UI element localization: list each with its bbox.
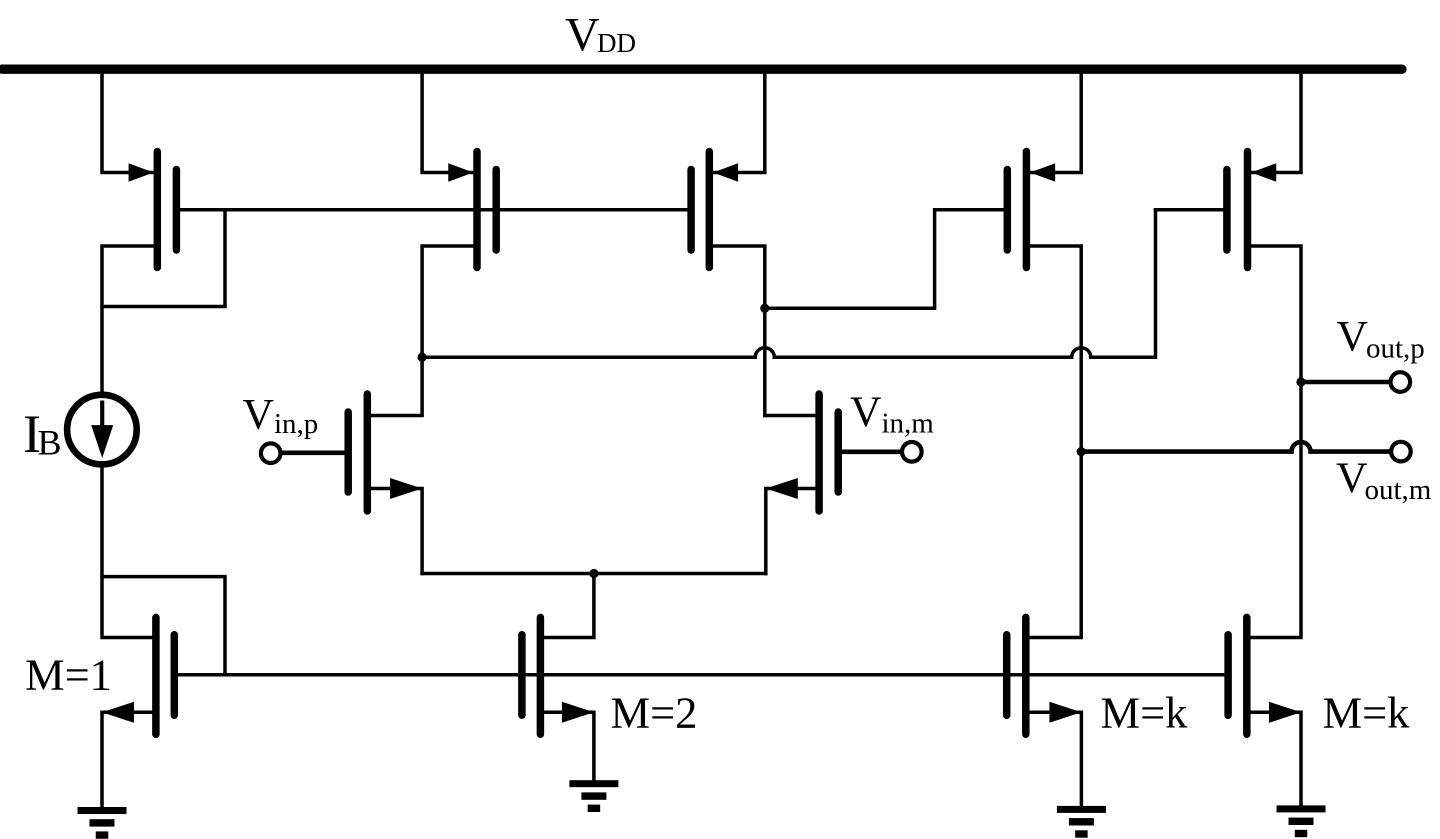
wire node A bus to P5 gate (with hops) <box>422 210 1155 357</box>
wire IB to M1 drain <box>102 467 156 637</box>
wire Mk1 source to ground <box>1026 712 1082 806</box>
svg-text:B: B <box>38 423 62 463</box>
wire P5 drain down to Mk2 drain (Voutp node) <box>1247 246 1301 638</box>
node Voutm junction dot <box>1077 447 1086 456</box>
wire Voutp node to terminal <box>1301 380 1391 385</box>
transistor Minm (NMOS input -) <box>766 394 838 511</box>
label Voutm <box>1336 454 1432 506</box>
svg-text:in,p: in,p <box>274 408 318 440</box>
terminal Voutp <box>1391 372 1411 392</box>
transistor Mk2 (NMOS, M=k right) <box>1228 617 1301 734</box>
node Voutp junction dot <box>1296 377 1305 386</box>
wire P1 gate bus to P2,P3 gates <box>176 208 691 212</box>
svg-text:V: V <box>1337 313 1368 361</box>
terminal Vinm <box>902 442 922 462</box>
transistor P4 (PMOS output left) <box>1007 152 1055 268</box>
svg-text:DD: DD <box>597 28 636 58</box>
transistor P1 (PMOS, diode-connected) <box>129 152 177 268</box>
transistor P3 (PMOS) <box>691 152 738 268</box>
wire bottom NMOS gate bus <box>174 673 1228 677</box>
terminal Voutm <box>1391 442 1411 462</box>
wire VDD to P2 source <box>422 74 473 173</box>
wire VDD to P4 source <box>1031 74 1082 173</box>
transistor P5 (PMOS output right) <box>1227 152 1276 268</box>
ground under Mk2 <box>1277 805 1326 837</box>
wire P4 drain down to Mk1 drain (Voutm node) <box>1026 246 1081 638</box>
wire Minm gate to Vinm terminal <box>838 449 902 454</box>
label VDD <box>565 9 636 62</box>
wire Minm drain lead <box>765 414 819 418</box>
node B junction dot (P3 drain / P4 gate) <box>760 304 769 313</box>
wire M1 gate-drain diode loop <box>102 577 225 675</box>
svg-text:out,m: out,m <box>1365 474 1432 506</box>
wire P1 drain down to IB <box>102 246 157 392</box>
ground under Mk1 <box>1057 806 1106 838</box>
wire Minp drain to node A <box>367 357 422 415</box>
transistor M2 (NMOS, M=2 tail) <box>522 617 594 734</box>
power rail VDD <box>2 65 1402 74</box>
wire tail down to M2 drain <box>540 574 594 638</box>
wire P1 gate-drain diode loop <box>102 210 225 307</box>
wire VDD to P3 source <box>713 74 765 173</box>
wire tail node <box>422 572 766 576</box>
transistor Minp (NMOS input +) <box>348 394 422 511</box>
wire P5 gate lead <box>1156 208 1227 212</box>
svg-text:V: V <box>243 391 274 439</box>
ground under M2 <box>569 780 618 812</box>
svg-text:in,m: in,m <box>882 408 935 440</box>
svg-text:M=k: M=k <box>1101 688 1189 738</box>
svg-text:M=2: M=2 <box>611 688 698 738</box>
transistor M1 (NMOS, M=1) <box>102 617 174 734</box>
wire P4 gate to node B <box>765 210 1008 308</box>
transistor P2 (PMOS current mirror) <box>448 152 496 268</box>
node tail junction dot <box>589 569 598 578</box>
wire VDD to P5 source <box>1252 74 1301 173</box>
terminal Vinp <box>261 443 281 463</box>
wire P3 drain down to Minm drain <box>709 246 765 416</box>
wire Minm source to tail <box>766 489 819 574</box>
ground under M1 <box>78 807 127 839</box>
wire Minp source to tail <box>367 489 422 574</box>
label Vinm <box>850 388 934 440</box>
label IB <box>23 404 62 464</box>
svg-text:V: V <box>850 388 881 436</box>
node A junction dot <box>418 353 427 362</box>
wire Mk2 source to ground <box>1247 712 1301 805</box>
transistor Mk1 (NMOS, M=k left) <box>1007 617 1082 734</box>
wire M2 source to ground <box>540 712 594 780</box>
wire Vinp terminal to Minp gate <box>281 450 349 455</box>
wire Voutm node to terminal (hop over P5 drain) <box>1081 442 1390 452</box>
wire M1 source to ground <box>102 712 156 807</box>
svg-text:M=k: M=k <box>1323 688 1411 738</box>
wire P2 drain to node A <box>422 246 477 357</box>
wire VDD to P1 source <box>102 74 153 173</box>
label Vinp <box>243 391 319 440</box>
svg-text:out,p: out,p <box>1366 332 1425 364</box>
label Voutp <box>1337 313 1425 365</box>
svg-text:V: V <box>1336 454 1367 502</box>
current source IB <box>67 395 137 465</box>
svg-text:V: V <box>565 9 600 62</box>
svg-text:M=1: M=1 <box>25 650 112 700</box>
